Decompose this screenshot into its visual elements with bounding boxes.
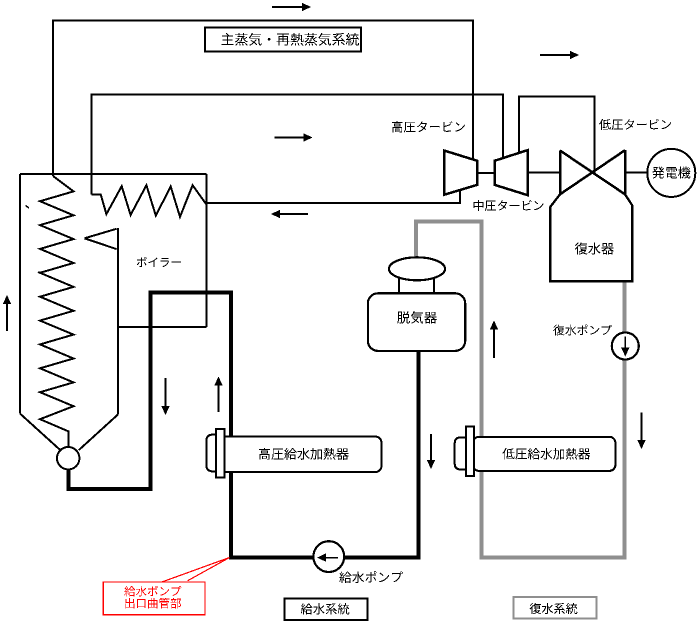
feedwater system box	[285, 599, 368, 621]
condensate system label	[530, 603, 578, 614]
HP turbine	[444, 151, 477, 195]
LP heater body	[473, 437, 616, 471]
condenser vessel	[550, 194, 632, 281]
feedwater pump arrow	[325, 557, 338, 559]
condensate pump circle	[612, 333, 639, 360]
shaft HP-IP	[477, 172, 495, 174]
red callout box	[103, 582, 205, 615]
deaerator dome ellipse	[389, 257, 445, 280]
condensate pipe: deaerator riser / LP heater loop / condenser drop	[416, 222, 625, 558]
red callout line A	[162, 558, 230, 583]
flow arrow HP feed up	[218, 385, 220, 413]
main steam system label	[221, 33, 359, 46]
LP heater label	[503, 448, 591, 460]
HP turbine label	[392, 121, 465, 133]
condensate pump arrow	[624, 337, 626, 349]
HP heater body	[219, 437, 382, 472]
flow arrow upper right (crossover right)	[540, 54, 571, 56]
flow arrow furnace up	[6, 303, 8, 331]
boiler drum circle	[57, 447, 79, 469]
IP turbine label	[474, 200, 544, 211]
main steam system box	[205, 28, 361, 52]
flow arrow LP condensate up	[493, 329, 495, 359]
shaft IP-LP	[528, 172, 560, 174]
HP heater label	[259, 448, 349, 460]
IP turbine	[495, 150, 528, 195]
boiler casing (outer box)	[20, 174, 206, 414]
burner pennant flag	[85, 229, 117, 249]
crossover line (IP turbine to LP turbine)	[519, 97, 594, 173]
red callout label line1	[124, 586, 181, 597]
main steam line (boiler superheater to HP turbine)	[53, 21, 473, 177]
LP turbine label	[599, 119, 671, 130]
boiler waterwall zigzag coil	[40, 176, 74, 447]
HP heater tubesheet	[216, 429, 225, 478]
boiler furnace right wall	[117, 228, 119, 415]
generator label	[652, 167, 690, 179]
feedwater pump circle	[313, 541, 344, 572]
feedwater pump label	[339, 571, 403, 583]
hot reheat line (reheater to IP turbine)	[92, 95, 503, 195]
feedwater pipe: drum downcomer / economizer loop / HP heater line / deaerator drop	[69, 293, 419, 558]
deaerator label	[397, 311, 437, 324]
flow arrow mid (hot reheat right)	[275, 137, 305, 139]
cold reheat line (HP turbine exhaust to reheater)	[206, 190, 459, 203]
stray dash mark	[38, 272, 40, 273]
flow arrow condenser drop down	[641, 413, 643, 442]
flow arrow cold reheat (left)	[279, 213, 308, 215]
LP heater tubesheet	[466, 427, 474, 476]
deaerator body	[368, 293, 465, 351]
HP heater channel cap	[206, 435, 218, 472]
shaft LP-generator	[625, 172, 647, 174]
LP heater channel cap	[455, 437, 466, 469]
boiler label	[137, 257, 181, 267]
red callout label line2	[125, 598, 181, 609]
flow arrow top (main steam right)	[272, 6, 303, 8]
condensate pump label	[553, 325, 612, 336]
flow arrow deaerator drop down	[430, 434, 432, 461]
red callout line B	[188, 558, 230, 581]
condenser label	[575, 242, 614, 254]
boiler furnace hopper left slant	[20, 414, 61, 451]
condensate system box	[514, 597, 597, 619]
flow arrow economizer down	[165, 378, 167, 407]
reheater zigzag coil	[92, 185, 207, 217]
feedwater system label	[301, 603, 350, 614]
LP turbine double-flow	[560, 150, 625, 194]
generator circle	[647, 149, 695, 197]
boiler furnace hopper right slant	[79, 415, 118, 450]
deaerator neck	[399, 278, 434, 294]
stray tick mark	[26, 206, 30, 209]
